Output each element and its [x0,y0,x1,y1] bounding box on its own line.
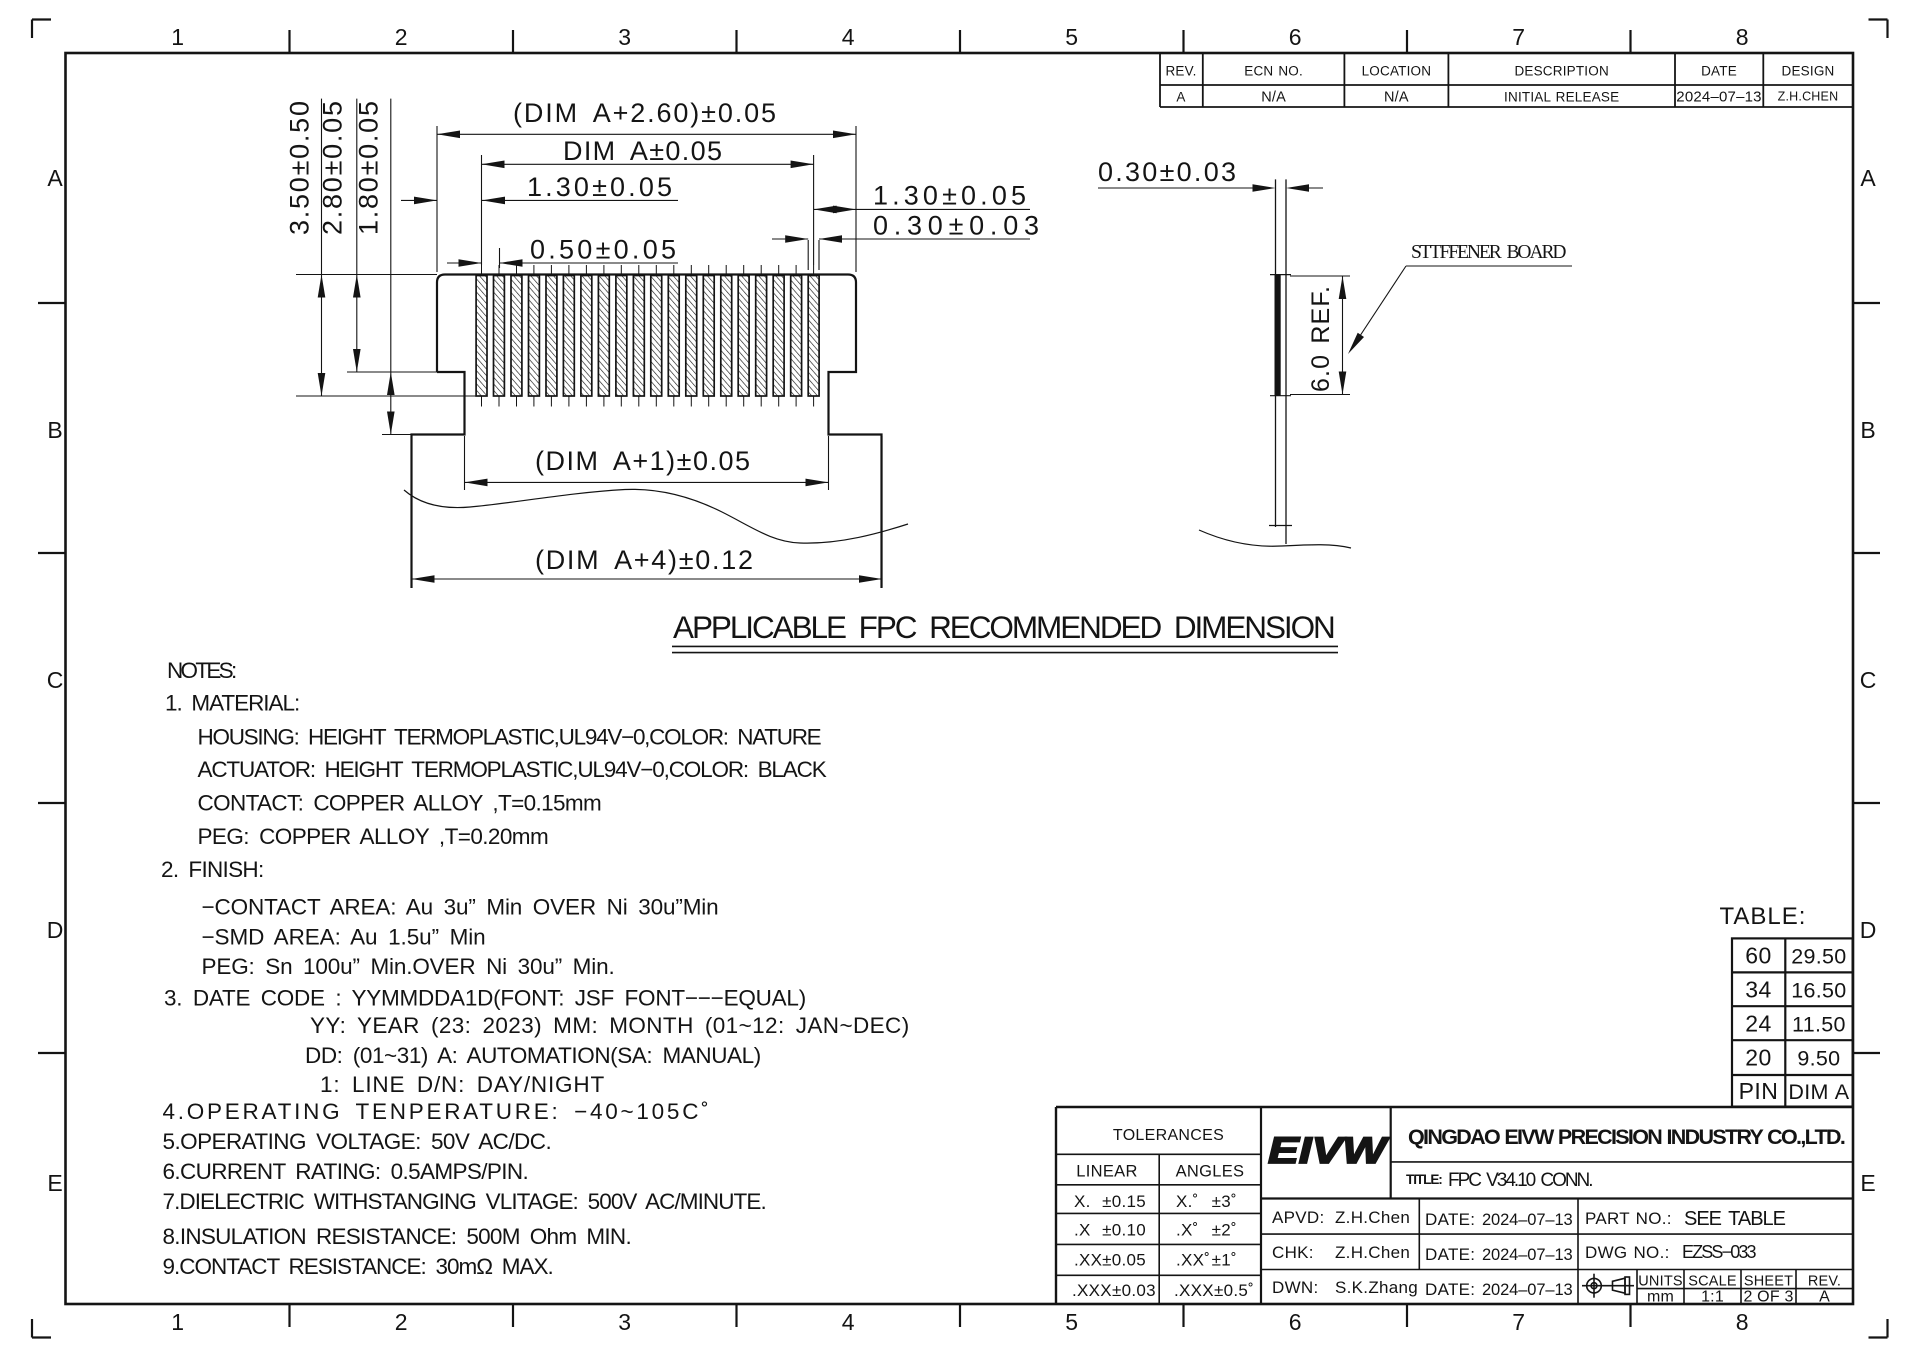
contact pad 14 with center line [703,265,714,407]
svg-text:2 OF 3: 2 OF 3 [1743,1289,1793,1306]
contact pad 16 with center line [738,265,749,407]
contact pad 11 with center line [651,265,662,407]
FPC strip (side view) [1276,179,1287,544]
svg-text:DD: (01~31) A: AUTOMATION(SA: DD: (01~31) A: AUTOMATION(SA: MANUAL) [305,1043,762,1068]
dimension (DIM A+2.60)±0.05 [437,126,856,272]
contact pad 12 with center line [668,265,679,407]
svg-text:1:1: 1:1 [1701,1289,1724,1306]
svg-text:NOTES:: NOTES: [167,658,238,683]
contact pad 8 with center line [598,265,609,407]
svg-text:N/A: N/A [1261,90,1286,106]
contact pad 2 with center line [494,265,505,407]
svg-text:8: 8 [1736,1309,1749,1335]
svg-text:A: A [1860,165,1876,191]
svg-text:DATE:: DATE: [1425,1210,1475,1229]
svg-text:1.80±0.05: 1.80±0.05 [354,100,384,235]
svg-text:16.50: 16.50 [1791,978,1846,1002]
svg-text:7: 7 [1512,24,1525,50]
approval rows [1272,1208,1787,1299]
svg-text:PEG: Sn 100u” Min.OVER Ni: PEG: Sn 100u” Min.OVER Ni 30u” Min. [202,954,616,979]
dimension 1.30±0.05 (left) [401,199,678,201]
svg-text:N/A: N/A [1384,90,1409,106]
connector body outline (main cross-section view) [412,275,882,589]
svg-text:X.: X. [1074,1192,1091,1211]
revision table [1160,53,1853,107]
svg-text:8.INSULATION RESISTANCE: 500M: 8.INSULATION RESISTANCE: 500M Ohm MIN. [163,1224,633,1249]
dimension 1.30±0.05 (right) [814,208,1030,210]
svg-text:−SMD AREA: Au 1.5u” Min: −SMD AREA: Au 1.5u” Min [202,925,487,950]
svg-text:1. MATERIAL:: 1. MATERIAL: [165,691,301,716]
zone letters left [47,165,64,1196]
svg-text:2: 2 [395,24,408,50]
svg-text:3: 3 [618,24,631,50]
contact pad 15 with center line [721,265,732,407]
contact pad 7 with center line [581,265,592,407]
svg-text:6.CURRENT RATING: 0.5AMPS/PIN: 6.CURRENT RATING: 0.5AMPS/PIN. [163,1159,530,1184]
svg-text:TITLE:: TITLE: [1406,1172,1443,1187]
svg-text:1.30±0.05: 1.30±0.05 [873,181,1027,211]
svg-text:DESCRIPTION: DESCRIPTION [1514,64,1608,79]
svg-text:HOUSING: HEIGHT TERMOPLASTIC,: HOUSING: HEIGHT TERMOPLASTIC,UL94V−0,COL… [198,725,823,750]
contact pad 4 with center line [529,265,540,407]
contact pad 6 with center line [563,265,574,407]
svg-text:.X˚: .X˚ [1176,1221,1199,1240]
zone numbers bottom [171,1309,1748,1335]
svg-text:Z.H.Chen: Z.H.Chen [1335,1243,1410,1262]
svg-text:LOCATION: LOCATION [1362,64,1432,79]
svg-text:3.50±0.50: 3.50±0.50 [285,100,315,235]
svg-text:X.˚: X.˚ [1176,1192,1199,1211]
svg-text:Z.H.CHEN: Z.H.CHEN [1778,90,1839,104]
svg-text:1.30±0.05: 1.30±0.05 [527,172,673,202]
svg-text:6.0 REF.: 6.0 REF. [1307,285,1335,392]
svg-text:DWG NO.:: DWG NO.: [1585,1243,1670,1262]
svg-text:5: 5 [1065,24,1078,50]
svg-text:REV.: REV. [1165,64,1196,79]
svg-text:PART NO.:: PART NO.: [1585,1209,1672,1228]
svg-text:EZSS−033: EZSS−033 [1682,1242,1757,1262]
svg-text:2024–07–13: 2024–07–13 [1482,1211,1573,1229]
stiffener board (thick bar) [1275,275,1281,396]
svg-text:5.OPERATING VOLTAGE: 50V AC/: 5.OPERATING VOLTAGE: 50V AC/DC. [163,1129,553,1154]
svg-text:TOLERANCES: TOLERANCES [1113,1127,1224,1144]
dimension 1.80±0.05 (vertical) [382,99,412,435]
svg-text:REV.: REV. [1808,1274,1841,1290]
svg-text:ECN NO.: ECN NO. [1244,64,1303,79]
svg-text:PEG: COPPER ALLOY ,T=0.20mm: PEG: COPPER ALLOY ,T=0.20mm [198,824,550,849]
notes text block [161,658,910,1279]
svg-text:2.80±0.05: 2.80±0.05 [318,100,348,235]
svg-text:7: 7 [1512,1309,1525,1335]
svg-text:±0.15: ±0.15 [1102,1192,1146,1211]
FPC break wavy line (side view) [1199,530,1351,548]
zone numbers top [171,24,1748,50]
svg-text:±0.05: ±0.05 [1102,1250,1146,1269]
svg-text:FPC V34.10 CONN.: FPC V34.10 CONN. [1448,1170,1594,1191]
svg-text:C: C [47,667,64,693]
svg-text:1: 1 [171,1309,184,1335]
svg-text:7.DIELECTRIC WITHSTANGING VL: 7.DIELECTRIC WITHSTANGING VLITAGE: 500V … [163,1189,768,1214]
svg-text:CHK:: CHK: [1272,1243,1314,1262]
svg-text:1: 1 [171,24,184,50]
svg-text:DATE:: DATE: [1425,1245,1475,1264]
dimension DIM A±0.05 [482,155,814,265]
svg-text:A: A [47,165,63,191]
svg-text:CONTACT: COPPER ALLOY ,T=0.1: CONTACT: COPPER ALLOY ,T=0.15mm [198,791,603,816]
svg-text:SHEET: SHEET [1744,1274,1793,1290]
svg-text:YY: YEAR (23: 2023) MM: MO: YY: YEAR (23: 2023) MM: MONTH (01~12: JA… [310,1013,910,1038]
svg-text:±0.10: ±0.10 [1102,1221,1146,1240]
svg-text:2024–07–13: 2024–07–13 [1676,89,1761,106]
svg-text:DESIGN: DESIGN [1782,64,1835,79]
svg-text:STTFFENER BOARD: STTFFENER BOARD [1411,242,1567,263]
svg-text:0.30±0.03: 0.30±0.03 [873,211,1040,241]
svg-text:.XXX±0.03: .XXX±0.03 [1072,1281,1156,1300]
svg-text:D: D [1860,917,1877,943]
svg-text:ACTUATOR: HEIGHT TERMOPLASTIC: ACTUATOR: HEIGHT TERMOPLASTIC,UL94V−0,CO… [198,757,828,782]
svg-text:ANGLES: ANGLES [1176,1163,1245,1181]
contact pad 13 with center line [686,265,697,407]
title block frame [1056,1107,1853,1304]
svg-text:0.50±0.05: 0.50±0.05 [530,235,677,265]
svg-text:3. DATE CODE : YYMMDDA1D(F: 3. DATE CODE : YYMMDDA1D(FONT: JSF FONT−… [164,986,807,1011]
svg-text:.XX: .XX [1074,1250,1102,1269]
svg-text:±1˚: ±1˚ [1212,1250,1237,1269]
svg-text:SCALE: SCALE [1688,1274,1737,1290]
svg-text:S.K.Zhang: S.K.Zhang [1335,1278,1418,1297]
svg-text:4.OPERATING TENPERATURE: −40~: 4.OPERATING TENPERATURE: −40~105C˚ [163,1099,710,1124]
svg-text:(DIM A+4)±0.12: (DIM A+4)±0.12 [535,545,754,575]
svg-text:UNITS: UNITS [1638,1274,1683,1290]
svg-text:60: 60 [1745,942,1772,968]
dimension (DIM A+1)±0.05 [465,436,829,490]
contact pad 19 with center line [791,265,802,407]
svg-text:34: 34 [1745,976,1772,1002]
contact pad 9 with center line [616,265,627,407]
svg-text:.XX˚: .XX˚ [1176,1250,1210,1269]
svg-text:(DIM A+2.60)±0.05: (DIM A+2.60)±0.05 [513,98,777,128]
svg-text:24: 24 [1745,1011,1772,1037]
svg-text:1: LINE D/N: DAY/NIGHT: 1: LINE D/N: DAY/NIGHT [320,1072,605,1097]
svg-text:E: E [47,1170,62,1196]
units/scale/sheet/rev labels [1638,1274,1841,1306]
svg-text:4: 4 [842,1309,855,1335]
svg-text:5: 5 [1065,1309,1078,1335]
svg-text:B: B [47,417,62,443]
FPC break wavy line (main view) [404,489,908,543]
svg-text:PIN: PIN [1739,1078,1779,1104]
svg-text:−CONTACT AREA: Au 3u” Min: −CONTACT AREA: Au 3u” Min OVER Ni 30u”Mi… [202,895,720,920]
pin dimension table [1732,938,1853,1106]
svg-text:A: A [1176,90,1185,105]
svg-text:QINGDAO EIVW PRECISION INDUSTR: QINGDAO EIVW PRECISION INDUSTRY CO.,LTD. [1408,1125,1846,1149]
contact pad 1 with center line [476,265,487,407]
dimension 2.80±0.05 (vertical) [347,99,437,372]
svg-text:2. FINISH:: 2. FINISH: [161,857,265,882]
svg-text:APPLICABLE FPC RECOMMENDED: APPLICABLE FPC RECOMMENDED DIMENSION [673,609,1337,645]
svg-text:4: 4 [842,24,855,50]
svg-text:.XXX±0.5˚: .XXX±0.5˚ [1174,1281,1254,1300]
tolerances table text [1072,1127,1254,1300]
svg-text:2: 2 [395,1309,408,1335]
svg-text:6: 6 [1289,1309,1302,1335]
svg-text:3: 3 [618,1309,631,1335]
svg-text:20: 20 [1745,1045,1772,1071]
svg-text:6: 6 [1289,24,1302,50]
svg-text:.X: .X [1074,1221,1091,1240]
svg-text:Z.H.Chen: Z.H.Chen [1335,1208,1410,1227]
svg-text:DIM A: DIM A [1788,1080,1849,1104]
contact pad 17 with center line [756,265,767,407]
svg-text:±3˚: ±3˚ [1212,1192,1237,1211]
svg-text:8: 8 [1736,24,1749,50]
contact pad 20 with center line [808,265,819,407]
svg-text:EIVW: EIVW [1268,1130,1390,1171]
contact pad 3 with center line [511,265,522,407]
svg-text:DIM A±0.05: DIM A±0.05 [563,136,723,166]
contact pad 18 with center line [773,265,784,407]
svg-text:C: C [1860,667,1877,693]
svg-text:APVD:: APVD: [1272,1208,1325,1227]
dimension 0.50±0.05 (left) [447,248,678,268]
svg-text:(DIM A+1)±0.05: (DIM A+1)±0.05 [535,446,751,476]
svg-text:DWN:: DWN: [1272,1278,1319,1297]
svg-text:LINEAR: LINEAR [1076,1163,1137,1181]
dimension 3.50±0.50 (vertical) [296,99,478,396]
svg-text:INITIAL RELEASE: INITIAL RELEASE [1504,90,1619,105]
svg-text:11.50: 11.50 [1792,1013,1846,1037]
svg-text:±2˚: ±2˚ [1212,1221,1237,1240]
svg-text:A: A [1819,1289,1830,1306]
svg-text:9.CONTACT RESISTANCE: 30mΩ M: 9.CONTACT RESISTANCE: 30mΩ MAX. [163,1254,555,1279]
svg-text:9.50: 9.50 [1797,1047,1840,1071]
svg-text:2024–07–13: 2024–07–13 [1482,1246,1573,1264]
contact pad 10 with center line [633,265,644,407]
svg-text:0.30±0.03: 0.30±0.03 [1098,157,1237,187]
svg-text:TABLE:: TABLE: [1720,903,1807,930]
dimension 6.0 REF. (vertical) [1290,276,1350,395]
projection symbols [1582,1274,1634,1298]
svg-text:DATE: DATE [1701,64,1737,79]
dimension 0.30±0.03 (right) [772,239,1030,270]
svg-text:SEE TABLE: SEE TABLE [1684,1208,1787,1230]
dimension (DIM A+4)±0.12 [412,436,883,587]
zone letters right [1860,165,1877,1196]
svg-text:29.50: 29.50 [1791,944,1846,968]
svg-text:B: B [1860,417,1875,443]
svg-text:DATE:: DATE: [1425,1280,1475,1299]
svg-text:2024–07–13: 2024–07–13 [1482,1281,1573,1299]
svg-text:E: E [1860,1170,1875,1196]
contact pad 5 with center line [546,265,557,407]
dimension 0.30±0.03 (side view) [1098,187,1323,189]
title row [1406,1170,1594,1191]
svg-text:D: D [47,917,64,943]
svg-text:mm: mm [1647,1289,1674,1306]
